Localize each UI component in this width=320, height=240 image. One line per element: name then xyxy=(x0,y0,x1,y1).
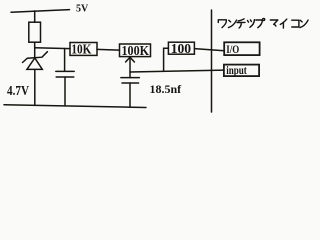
ground rail xyxy=(4,105,146,108)
capacitor C1 bottom plate xyxy=(56,76,74,78)
wire 10K to 100K xyxy=(97,48,120,51)
node B wire to input pin xyxy=(130,70,224,72)
wire R1 to node A xyxy=(34,42,36,57)
wire node to C1 xyxy=(64,49,66,72)
pin I/O box xyxy=(224,42,259,55)
katakana CHI xyxy=(237,19,245,28)
zener diode D1 cathode bar xyxy=(23,52,48,63)
wire D1 anode to ground xyxy=(34,69,36,105)
wire C2 to ground xyxy=(129,83,131,107)
wire rail to R1 xyxy=(34,11,36,22)
capacitor C2 bottom plate xyxy=(122,82,139,84)
resistor R1 xyxy=(29,22,41,42)
svg-text:10K: 10K xyxy=(71,43,91,58)
katakana PU xyxy=(256,18,265,27)
pin input box xyxy=(224,65,259,77)
zener diode D1 triangle xyxy=(27,58,42,69)
5V rail xyxy=(11,10,70,13)
resistor R2 box xyxy=(70,43,97,56)
node A wire to 10K xyxy=(35,47,70,50)
microcontroller boundary xyxy=(211,10,213,112)
wiper arrow of R3 xyxy=(126,57,135,62)
wire C1 to ground xyxy=(64,77,66,106)
capacitor C2 top plate xyxy=(121,77,139,79)
wire node B up to R4 xyxy=(164,48,169,71)
svg-text:I/O: I/O xyxy=(226,42,239,56)
katakana I xyxy=(280,19,287,28)
potentiometer R3 box xyxy=(120,44,151,57)
katakana MA xyxy=(270,20,278,26)
katakana N xyxy=(229,20,237,28)
wire wiper down to node B xyxy=(129,57,131,77)
katakana WA xyxy=(218,20,226,28)
svg-text:18.5nf: 18.5nf xyxy=(150,82,183,96)
svg-text:4.7V: 4.7V xyxy=(7,83,29,98)
wire R4 to I/O pin xyxy=(194,49,224,51)
label: one-chip microcontroller (katakana drawn as paths) xyxy=(218,18,308,28)
svg-text:input: input xyxy=(226,63,247,77)
resistor R4 box xyxy=(168,42,194,54)
svg-text:100: 100 xyxy=(171,42,191,57)
katakana small TSU xyxy=(248,20,255,28)
svg-text:100K: 100K xyxy=(122,44,150,59)
katakana KO xyxy=(292,20,299,27)
background paper xyxy=(0,0,318,117)
svg-text:5V: 5V xyxy=(76,4,89,15)
katakana N2 xyxy=(300,20,308,28)
capacitor C1 top plate xyxy=(56,70,74,72)
